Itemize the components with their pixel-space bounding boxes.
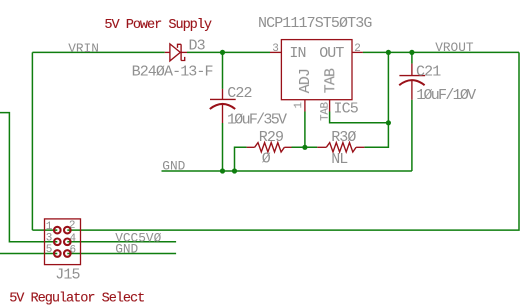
svg-text:1: 1 bbox=[46, 221, 53, 233]
wire diode to IC IN pin bbox=[187, 51, 270, 53]
svg-text:1ØuF/35V: 1ØuF/35V bbox=[227, 112, 287, 129]
plate arc bbox=[210, 104, 235, 109]
lead right bbox=[284, 146, 291, 148]
J15 pad circle 4 bbox=[64, 239, 71, 246]
pin stub top bbox=[411, 64, 413, 76]
junction dot TAB branch bbox=[386, 120, 391, 125]
wire R29 to ADJ junction bbox=[292, 146, 318, 148]
svg-text:IC5: IC5 bbox=[334, 100, 359, 117]
cathode lead bbox=[181, 51, 187, 53]
plate flat bbox=[399, 75, 425, 77]
lead left bbox=[247, 146, 255, 148]
cathode bar bbox=[180, 44, 182, 60]
svg-text:1ØuF/1ØV: 1ØuF/1ØV bbox=[416, 87, 476, 104]
resistor R30 bbox=[317, 143, 364, 152]
junction dot C21 top bbox=[409, 50, 414, 55]
wire VRIN vertical down left bbox=[31, 52, 33, 230]
svg-text:R3Ø: R3Ø bbox=[331, 129, 356, 146]
pin TAB stub bottom bbox=[329, 100, 331, 112]
svg-text:5: 5 bbox=[46, 244, 53, 256]
wire left net to J15 pin5 bbox=[0, 253, 57, 255]
wire OUT to right bbox=[363, 51, 519, 53]
wire VROUT down right edge to J15 pin2 bbox=[67, 52, 519, 230]
J15 pad circle 3 bbox=[54, 239, 61, 246]
J15 pad circle 6 bbox=[64, 250, 71, 257]
svg-text:NL: NL bbox=[331, 151, 348, 168]
junction dot R29 gnd bbox=[232, 168, 237, 173]
svg-text:3: 3 bbox=[46, 233, 53, 245]
top hook bbox=[178, 44, 182, 48]
svg-text:GND: GND bbox=[115, 241, 138, 256]
wire vertical from OUT junction down to R30 bbox=[364, 52, 388, 147]
pin stub top bbox=[222, 89, 224, 100]
bottom hook bbox=[181, 57, 185, 61]
svg-text:1: 1 bbox=[293, 102, 305, 109]
svg-text:B24ØA-13-F: B24ØA-13-F bbox=[132, 64, 213, 81]
J15 pad circle 2 bbox=[64, 227, 71, 234]
GND rail bbox=[162, 170, 412, 172]
svg-text:R29: R29 bbox=[259, 129, 283, 146]
capacitor C22 bbox=[210, 52, 236, 171]
lead left bbox=[317, 146, 326, 148]
junction dot at C22 top bbox=[220, 50, 225, 55]
pin stub bottom bbox=[411, 81, 413, 100]
svg-text:GND: GND bbox=[162, 159, 185, 174]
svg-text:NCP1117ST5ØT3G: NCP1117ST5ØT3G bbox=[258, 15, 372, 32]
svg-text:VROUT: VROUT bbox=[435, 40, 474, 55]
pin 1 stub ADJ bbox=[304, 100, 306, 112]
J15 pad circle 5 bbox=[54, 250, 61, 257]
zigzag bbox=[255, 143, 285, 152]
svg-text:VRIN: VRIN bbox=[68, 41, 99, 56]
junction dot ADJ/R29/R30 bbox=[302, 145, 307, 150]
svg-text:OUT: OUT bbox=[319, 45, 344, 62]
svg-text:3: 3 bbox=[272, 43, 278, 55]
wire to J15 pin 1 bbox=[32, 229, 57, 231]
svg-text:C22: C22 bbox=[227, 85, 251, 102]
svg-text:5V Power Supply: 5V Power Supply bbox=[104, 18, 212, 33]
svg-text:J15: J15 bbox=[55, 266, 80, 283]
IC5 regulator box bbox=[281, 40, 352, 100]
plate arc bbox=[399, 80, 424, 85]
zigzag bbox=[326, 143, 356, 152]
wire ADJ down to R rail bbox=[304, 112, 306, 148]
svg-text:C21: C21 bbox=[416, 63, 441, 80]
junction dot OUT/R30 branch bbox=[386, 50, 391, 55]
svg-text:Ø: Ø bbox=[262, 151, 271, 168]
wire bottom bbox=[411, 100, 413, 171]
anode lead bbox=[165, 51, 170, 53]
pin 3 stub IN bbox=[270, 51, 281, 53]
wire top bbox=[222, 52, 224, 89]
lead right bbox=[356, 146, 364, 148]
wire GND stub from pin6 bbox=[67, 253, 176, 255]
wire bottom bbox=[222, 123, 224, 171]
J15 pad circle 1 bbox=[54, 227, 61, 234]
wire VCC5V0 stub from pin4 bbox=[67, 241, 176, 243]
pin 2 stub OUT bbox=[352, 51, 363, 53]
svg-text:2: 2 bbox=[354, 43, 360, 55]
triangle bbox=[170, 44, 180, 61]
wire TAB down and right bbox=[330, 112, 389, 123]
plate flat bbox=[210, 98, 236, 100]
resistor R29 bbox=[247, 143, 292, 152]
svg-text:IN: IN bbox=[289, 45, 305, 62]
wire R29 left branch bbox=[235, 147, 247, 171]
capacitor C21 bbox=[399, 52, 425, 171]
junction dot C22 gnd bbox=[220, 168, 225, 173]
diode D3 bbox=[165, 44, 187, 61]
wire top bbox=[411, 52, 413, 63]
connector J15 box bbox=[45, 219, 81, 265]
pin stub bottom bbox=[222, 105, 224, 123]
svg-text:ADJ: ADJ bbox=[297, 69, 314, 93]
svg-text:5V Regulator Select: 5V Regulator Select bbox=[9, 292, 144, 307]
svg-text:TAB: TAB bbox=[322, 68, 339, 93]
wire VRIN horizontal top rail bbox=[32, 51, 164, 53]
wire left net to J15 pin3 bbox=[0, 113, 57, 242]
